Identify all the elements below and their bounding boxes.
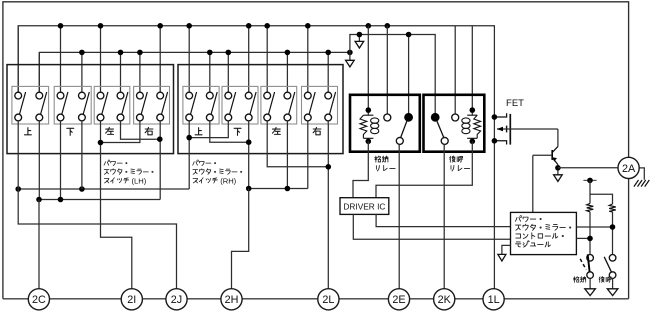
node xyxy=(79,186,85,192)
wire: feed to switch top at x=100.5 xyxy=(100,26,102,92)
wire: RH down-A to node xyxy=(189,124,228,138)
svg-text:DRIVER IC: DRIVER IC xyxy=(343,201,385,211)
node: bus A junction xyxy=(385,23,391,29)
wire: top supply bus A xyxy=(18,26,494,117)
svg-text:2I: 2I xyxy=(127,294,136,306)
ground xyxy=(498,254,506,261)
wire: switch bottom lead xyxy=(139,121,141,124)
wire: switch bottom lead xyxy=(100,121,102,124)
label module line1 xyxy=(515,216,521,222)
switch cell box 右 xyxy=(134,86,170,124)
node: RH link to 2L xyxy=(326,164,332,170)
wire: base to module xyxy=(532,155,534,212)
wire: feed to switch top at x=248.7 xyxy=(248,26,250,92)
node xyxy=(285,186,291,192)
wire: ground stub under bus B end xyxy=(349,52,351,60)
wire: module ground xyxy=(502,245,511,254)
node: emitter junction xyxy=(555,165,561,171)
wire: switch bottom lead xyxy=(159,121,161,124)
wire: switch bottom lead xyxy=(327,121,329,124)
return switch arm xyxy=(604,257,611,272)
wire: feed to switch top at x=39.3 xyxy=(38,52,40,92)
node: bus B junction xyxy=(79,50,85,56)
wire: switch bottom lead xyxy=(209,121,211,124)
node: LH link A xyxy=(98,140,104,146)
wire: RH right-A down xyxy=(307,124,309,189)
switch contacts xyxy=(15,92,22,99)
svg-text:FET: FET xyxy=(506,98,524,109)
wire: LH left-B to node xyxy=(121,124,160,139)
wire: FET rail to 1L xyxy=(493,117,495,289)
wire: switch bottom lead xyxy=(227,121,229,124)
svg-text:(RH): (RH) xyxy=(220,176,236,185)
label 格納リレー xyxy=(375,156,381,162)
wire: switch bottom lead xyxy=(266,121,268,124)
return relay common contact xyxy=(431,113,440,122)
connector 2A xyxy=(618,157,639,178)
node: FET source xyxy=(492,138,498,144)
switch contacts xyxy=(206,92,213,99)
ground xyxy=(355,41,364,48)
switch contacts xyxy=(245,92,252,99)
svg-text:2J: 2J xyxy=(171,294,182,306)
wire: feed to switch top at x=120.5 xyxy=(120,52,122,92)
wire xyxy=(38,124,40,200)
wire: feed to switch top at x=18.2 xyxy=(17,26,19,92)
wire: to 2J xyxy=(18,189,176,289)
wire: LH right-B down to bus E xyxy=(159,124,161,200)
retract relay common contact xyxy=(404,113,413,122)
label 下 xyxy=(234,128,241,135)
node: RH link A xyxy=(186,135,192,141)
ground xyxy=(554,175,563,182)
wire: feed to switch top at x=328.2 xyxy=(327,52,329,92)
label 格納 xyxy=(573,277,579,283)
retract relay arm pivot xyxy=(396,137,403,144)
wire: retract coil to driver xyxy=(353,141,368,197)
retract relay contact (NO) xyxy=(384,114,391,121)
return relay arm pivot xyxy=(441,137,448,144)
wire: relay common feed xyxy=(408,35,410,118)
node xyxy=(587,236,593,242)
svg-text:2H: 2H xyxy=(225,294,239,306)
switch contacts xyxy=(137,92,144,99)
wire: switch bottom lead xyxy=(60,121,62,124)
wire: branch to second resistor xyxy=(590,194,613,204)
switch contacts xyxy=(79,92,86,99)
node: LH link B xyxy=(157,136,163,142)
power outer mirror switch RH box xyxy=(178,65,343,154)
wire: switch bottom lead xyxy=(188,121,190,124)
wire xyxy=(81,124,83,189)
svg-text:2C: 2C xyxy=(32,294,46,306)
node: bus A junction xyxy=(98,23,104,29)
label switch LH line1 xyxy=(104,160,110,165)
wire: feed to switch top at x=160.2 xyxy=(159,26,161,92)
node xyxy=(610,224,616,230)
wire: switch bottom lead xyxy=(307,121,309,124)
wire: LH mirror-R arm to node xyxy=(101,124,140,143)
node: bus B junction xyxy=(137,50,143,56)
wire: feed to switch top at x=228.3 xyxy=(227,52,229,92)
node: junction xyxy=(406,32,412,38)
wire xyxy=(589,278,591,289)
switch contacts xyxy=(97,92,104,99)
power outer mirror control module box xyxy=(511,212,577,254)
wire: RH left-A to node xyxy=(267,124,328,167)
switch contacts xyxy=(325,92,332,99)
wire xyxy=(60,124,62,200)
relay coil (return) xyxy=(471,110,473,115)
label module line4 xyxy=(516,242,521,247)
connector 2H xyxy=(221,289,242,310)
label switch RH line3 xyxy=(193,178,198,182)
wire: relay coil feed xyxy=(471,26,473,110)
svg-text:2L: 2L xyxy=(322,294,334,306)
node: bus A junction xyxy=(264,23,270,29)
label 上 xyxy=(24,128,31,135)
switch contacts xyxy=(157,92,164,99)
node: FET drain xyxy=(492,114,498,120)
wire: bus DR xyxy=(249,188,308,190)
chassis ground xyxy=(634,180,649,187)
driver IC box xyxy=(340,198,389,215)
wire: bus E xyxy=(39,199,160,201)
wire: return arm to 2K xyxy=(443,144,445,288)
node: bus B junction xyxy=(207,50,213,56)
wire: base xyxy=(533,154,552,156)
switch contacts xyxy=(36,92,43,99)
wire: RH down-B down xyxy=(248,124,250,189)
wire: feed to switch top at x=139.9 xyxy=(139,52,141,92)
switch cell box 右 xyxy=(302,86,338,124)
wire: switch bottom lead xyxy=(120,121,122,124)
label 上 xyxy=(195,128,202,135)
node: bus A junction xyxy=(157,23,163,29)
FET gate bar xyxy=(506,126,508,133)
switch contacts xyxy=(225,92,232,99)
node: bus B junction xyxy=(226,50,232,56)
node: RH link B xyxy=(246,139,252,145)
return relay box xyxy=(424,95,485,152)
wire: RH up-A down to bus DL xyxy=(188,124,190,189)
wire: driver out upper xyxy=(376,214,510,226)
wire: switch bottom lead xyxy=(17,121,19,124)
wire: to 2C xyxy=(38,200,40,289)
node: bus B junction xyxy=(347,50,353,56)
wire: feed to switch top at x=287.4 xyxy=(286,52,288,92)
wire: ground rail to relay commons xyxy=(350,35,435,118)
return relay contact (NO) xyxy=(452,114,459,121)
connector 2I xyxy=(121,289,142,310)
switch cell box 左 xyxy=(261,86,297,124)
wire: RH right-B down to 2L xyxy=(327,124,329,289)
transistor base bar xyxy=(551,150,553,160)
label switch LH line3 xyxy=(104,178,109,182)
wire: module to R1 leg xyxy=(576,237,590,239)
wire: feed to switch top at x=189.2 xyxy=(188,26,190,92)
wire: down from splice xyxy=(589,180,591,203)
switch cell box 下 xyxy=(222,86,258,124)
label 復帰リレー xyxy=(450,156,455,162)
wire: R1 to switch xyxy=(589,212,591,255)
node: bus B junction xyxy=(325,50,331,56)
label switch RH line1 xyxy=(193,160,199,165)
node: bus A junction xyxy=(366,23,372,29)
wire: switch bottom lead xyxy=(248,121,250,124)
switch contacts xyxy=(304,92,311,99)
resistor R2 xyxy=(609,204,616,212)
connector 2C xyxy=(28,289,49,310)
wire: feed to switch top at x=60.5 xyxy=(60,26,62,92)
wire: second bus B xyxy=(39,52,350,92)
switch contacts xyxy=(57,92,64,99)
wire: emitter node xyxy=(557,165,559,175)
wire: switch bottom lead xyxy=(286,121,288,124)
node: bus A junction xyxy=(58,23,64,29)
transistor emitter with arrow xyxy=(552,157,558,164)
node: bus B junction xyxy=(285,50,291,56)
power outer mirror switch LH box xyxy=(7,65,174,154)
switch cell box 上 xyxy=(183,86,219,124)
node: splice xyxy=(587,178,593,184)
connector 1L xyxy=(483,289,504,310)
wire: emitter to 2A xyxy=(558,167,618,169)
wire: feed to switch top at x=81.9 xyxy=(81,52,83,92)
label module line2 xyxy=(516,225,521,230)
wire: feed to switch top at x=267.2 xyxy=(266,26,268,92)
ground xyxy=(585,289,596,296)
wire xyxy=(612,278,614,289)
ground xyxy=(607,289,618,296)
wire: LH upper leads down xyxy=(17,124,19,189)
svg-text:(LH): (LH) xyxy=(132,176,147,185)
wire: LH left-A down xyxy=(101,124,132,289)
wire: relay coil feed xyxy=(367,26,369,110)
node xyxy=(58,197,64,203)
wire: feed to switch top at x=209.8 xyxy=(209,52,211,92)
connector row line xyxy=(3,298,629,300)
node: junction xyxy=(357,32,363,38)
retract relay box xyxy=(350,95,420,152)
node: bus A junction xyxy=(186,23,192,29)
svg-text:2E: 2E xyxy=(392,294,405,306)
wire: switch bottom lead xyxy=(38,121,40,124)
label 下 xyxy=(67,128,74,135)
retract relay arm xyxy=(401,121,407,137)
wire: RH up-B to node xyxy=(210,124,249,142)
retract switch arm xyxy=(588,254,590,272)
wire: switch bottom lead xyxy=(81,121,83,124)
connector 2K xyxy=(434,289,455,310)
wire: R2 to switch xyxy=(612,212,614,255)
wire: feed to switch top at x=307.8 xyxy=(307,26,309,92)
wire: bus DL xyxy=(18,188,189,190)
label 右 xyxy=(313,127,321,134)
label 復帰 xyxy=(599,277,604,283)
label module line3 xyxy=(516,234,521,238)
wire: FET to transistor collector xyxy=(557,129,559,146)
transistor collector xyxy=(552,146,558,152)
wire: relay contact feed xyxy=(386,26,388,114)
connector 2L xyxy=(318,289,339,310)
label switch RH line2 xyxy=(193,170,198,175)
switch contacts xyxy=(284,92,291,99)
resistor R1 xyxy=(587,203,594,212)
switch contacts xyxy=(264,92,271,99)
wire: relay contact feed xyxy=(454,26,456,114)
return relay arm xyxy=(437,121,444,137)
switch contacts xyxy=(117,92,124,99)
FET channel bar xyxy=(509,114,511,145)
retract switch motion dashes xyxy=(580,259,586,270)
node: bus B junction xyxy=(118,50,124,56)
wire: retract arm to 2E xyxy=(398,144,400,288)
svg-text:2K: 2K xyxy=(438,294,452,306)
switch cell box 下 xyxy=(54,86,91,124)
node: bus A junction xyxy=(305,23,311,29)
FET drain stub xyxy=(494,113,506,117)
retract switch contacts xyxy=(587,254,594,261)
wire: module to R2 leg xyxy=(576,226,612,228)
connector 2J xyxy=(166,289,187,310)
node xyxy=(15,186,21,192)
node: bus A junction xyxy=(246,23,252,29)
FET body line with arrow xyxy=(497,128,558,130)
switch cell box 上 xyxy=(12,86,49,124)
node xyxy=(36,197,42,203)
svg-text:1L: 1L xyxy=(488,294,500,306)
label 左 xyxy=(272,127,280,134)
wire: return coil to driver xyxy=(376,141,472,197)
wire: 2A to chassis xyxy=(639,168,644,180)
FET source stub xyxy=(494,141,506,145)
node xyxy=(246,186,252,192)
connector 2E xyxy=(388,289,409,310)
svg-text:2A: 2A xyxy=(622,163,636,175)
ground xyxy=(346,60,355,67)
wire: ground stub xyxy=(358,35,360,42)
label 右 xyxy=(145,127,153,134)
splice bar xyxy=(583,179,596,181)
label 左 xyxy=(106,127,114,134)
label switch LH line2 xyxy=(104,170,109,175)
switch contacts xyxy=(186,92,193,99)
wire: to 2H xyxy=(232,189,249,289)
relay coil (retract) xyxy=(367,110,369,115)
switch cell box 左 xyxy=(94,86,130,124)
wire: driver out lower xyxy=(353,214,510,239)
return switch contacts xyxy=(609,254,616,261)
wire: RH left-B down xyxy=(286,124,288,189)
